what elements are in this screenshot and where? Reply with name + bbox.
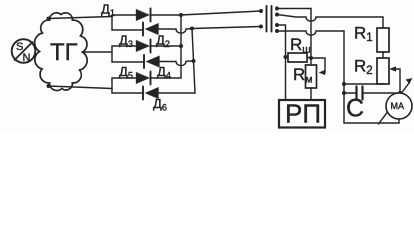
wire bus A (cathodes of D1,D3,D5) [179,13,183,78]
wire row 3 (anode of D3) [112,45,137,47]
permanent magnet rotor S/N [12,39,36,64]
milliammeter MA [386,93,412,119]
wire phase 1 from generator top [47,17,113,21]
capacitor C [344,87,400,100]
wire vertical through hops down to Rsh/Rm junction [309,9,313,66]
label D2 [156,33,170,50]
wire row 1 cathode of D1 to positive bus and connector [151,11,261,15]
wire bus B (anodes of D2,D4,D6) [190,27,196,94]
svg-text:Д5: Д5 [119,64,133,81]
svg-text:R2: R2 [354,57,373,78]
connector bar right [271,6,273,32]
relay RP box [279,99,325,129]
wire row 4 anode of D4, hop over bus A, to bus B [160,61,192,66]
label Rsh [290,35,311,56]
wire Rm wiper tie loop [311,58,325,75]
svg-text:Д1: Д1 [101,2,115,19]
wire meter bottom loop [344,119,399,123]
resistor R2 (potentiometer) [377,58,389,84]
label R2 [354,57,373,78]
connector plug contacts XP (left half pins) [259,9,263,29]
tachogenerator TG stator winding (cloud) [35,13,88,91]
resistor Rm (adjusting rheostat) [306,65,317,88]
wire row 2 anode of D2, hop over bus A, to negative bus and connector [159,27,261,34]
wire row 5 cathode of D5 to bus A bottom corner [151,77,181,79]
svg-text:R1: R1 [354,24,373,45]
label C [346,95,364,123]
svg-text:С: С [346,95,364,123]
wire left vertical of output loop [342,31,346,123]
resistor Rsh (shunt) [286,53,312,62]
wire from connector pin to R2 bottom node (hops over vertical) [275,29,344,35]
label D1 [101,2,115,19]
wire row 6 (to cathode bar of D6) [112,92,143,94]
diode D6 [143,87,159,100]
wire row 5 (anode of D5) [112,77,137,79]
svg-text:Д2: Д2 [156,33,170,50]
diode D3 [136,40,151,53]
meter needle arrow [379,78,413,124]
svg-text:РП: РП [285,99,321,129]
diode D2 [143,23,159,36]
wire from connector pin to Rm chain (top) [275,7,311,11]
wire Rm bottom to RP [310,88,312,100]
wire from connector pin down to Rsh left / RP left [275,23,288,100]
node phase 2 split [111,46,113,62]
label D3 [119,33,133,50]
wire R1 to R2 [382,52,384,58]
connector bar left [266,6,268,32]
wire phase 3 from generator bottom [47,84,113,89]
wire R2 bottom to node [342,82,383,86]
svg-text:Rм: Rм [293,65,313,86]
label D5 [119,64,133,81]
svg-text:МА: МА [391,101,405,111]
label D4 [157,64,171,81]
wire from connector pin to R1 (hops over vertical) [275,13,383,29]
wire row 3 cathode of D3 to bus A [151,45,181,47]
svg-text:ТГ: ТГ [50,39,78,66]
wire row 6 anode of D6 to bus B bottom corner [159,92,195,94]
wire row 4 (to cathode bar of D4) [112,61,144,63]
svg-text:Д3: Д3 [119,33,133,50]
svg-text:Д6: Д6 [153,96,167,113]
diode D1 [136,9,151,22]
label R1 [354,24,373,45]
resistor R1 [377,28,389,52]
node phase 1 split [111,15,113,30]
diode D4 [144,55,160,68]
wire row 2 (to cathode bar of D2) [112,29,143,31]
wire phase 2 from generator right [82,51,112,53]
diode D5 [136,72,151,85]
wire R2 wiper to meter [390,66,403,95]
node phase 3 split [111,78,113,93]
svg-text:Rш: Rш [290,35,311,56]
label Rm [293,65,313,86]
label D6 [153,96,167,113]
wire row 1 (anode of D1) [112,14,137,16]
svg-text:Д4: Д4 [157,64,171,81]
svg-text:N: N [23,52,31,64]
